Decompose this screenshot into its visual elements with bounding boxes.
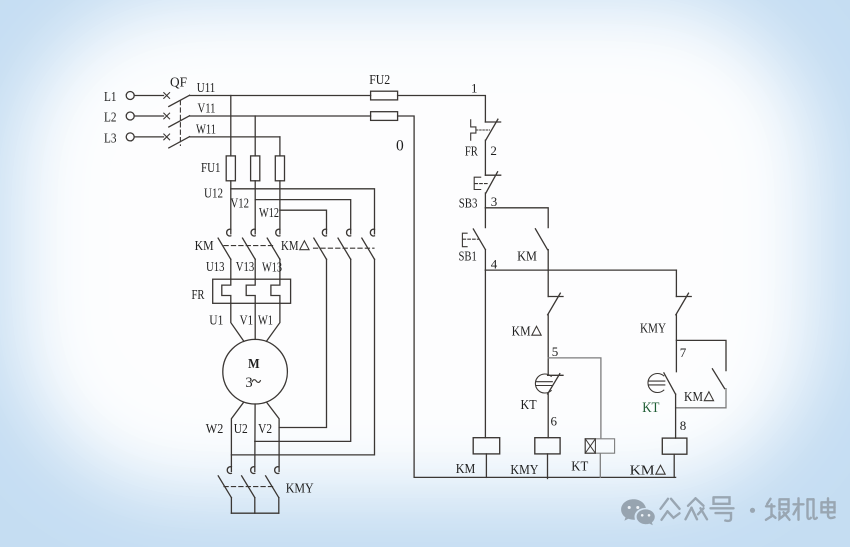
- svg-text:KMY: KMY: [640, 322, 666, 337]
- contactor KM-delta main contact blade: [338, 238, 351, 259]
- svg-text:SB1: SB1: [459, 250, 477, 265]
- svg-text:KT: KT: [521, 398, 537, 413]
- pushbutton SB3 NC contact tick: [485, 174, 500, 176]
- svg-text:8: 8: [680, 418, 687, 433]
- svg-text:V2: V2: [258, 422, 272, 437]
- svg-text:KMY: KMY: [286, 482, 314, 497]
- coil KM-delta: [662, 438, 687, 454]
- wire coil KMY to rail 0: [547, 454, 549, 479]
- wire L2 lead: [134, 115, 163, 117]
- thermal relay FR heater element 2: [246, 279, 255, 303]
- wire U1 (to motor): [231, 303, 244, 341]
- wire coil KM-delta to rail 0: [673, 454, 675, 477]
- watermark text 公众号·银机电: [661, 497, 835, 521]
- wire KMY blade to star bar: [278, 498, 280, 514]
- svg-text:7: 7: [680, 345, 687, 360]
- svg-text:QF: QF: [170, 76, 187, 91]
- svg-text:FR: FR: [192, 288, 206, 303]
- contactor KMY contact hook: [251, 467, 255, 474]
- wire to node 5: [547, 315, 549, 376]
- contactor KM-delta aux NO blade: [712, 369, 724, 389]
- breaker QF blade L1: [169, 95, 190, 106]
- contactor KM-delta linkage (dashed): [314, 247, 375, 249]
- contactor KM-delta main contact blade: [314, 238, 327, 259]
- KM-delta NC label: [512, 325, 542, 340]
- wire W13: [279, 259, 281, 279]
- contactor KMY contact blade: [242, 476, 255, 498]
- coil KM-delta label: [630, 464, 666, 479]
- svg-text:U12: U12: [204, 187, 223, 202]
- wire V1 (to motor): [254, 303, 256, 339]
- breaker QF blade L2: [169, 116, 190, 127]
- wire phase 2 down to fuse FU1b: [254, 116, 256, 156]
- svg-text:M: M: [248, 357, 260, 372]
- thermal relay FR NC contact blade: [486, 119, 498, 140]
- wire node 1 (fuse to control rail): [398, 96, 486, 123]
- svg-text:U13: U13: [206, 260, 225, 275]
- svg-text:KM: KM: [630, 464, 656, 479]
- wire coil KM to rail 0: [485, 454, 487, 478]
- contactor KM main contact blade: [267, 238, 280, 259]
- fuse FU1c: [275, 156, 284, 181]
- wire U12 (to KM-delta col 3): [231, 189, 375, 234]
- svg-text:4: 4: [491, 257, 498, 272]
- contactor KM main contact blade: [218, 238, 231, 259]
- wire node 7 branch to KM-delta aux: [676, 340, 726, 370]
- fuse FU1b: [251, 156, 260, 181]
- svg-text:W11: W11: [196, 123, 216, 138]
- fuse FU1a: [226, 156, 235, 181]
- pushbutton SB1 blade: [473, 229, 485, 250]
- fuse FU2 lower: [371, 112, 398, 121]
- terminal L1: [104, 90, 134, 105]
- svg-text:L2: L2: [104, 111, 117, 126]
- KT NC delayed contact blade: [548, 374, 560, 394]
- thermal relay FR box: [213, 279, 291, 303]
- svg-text:0: 0: [396, 138, 404, 155]
- svg-text:3: 3: [491, 194, 498, 209]
- svg-text:V11: V11: [198, 102, 216, 117]
- terminal L3: [104, 132, 134, 147]
- wire KM aux to node 4: [547, 250, 549, 271]
- wire U2 (motor to KMY and KM-delta col2): [254, 404, 256, 471]
- coil KT (with crossed box): [585, 439, 614, 453]
- svg-text:KM: KM: [512, 325, 531, 340]
- wire W1 (to motor): [266, 303, 280, 341]
- contactor KM-delta main contact hook: [370, 229, 374, 236]
- pushbutton SB1 NO upper terminal: [484, 208, 486, 228]
- contactor KM-delta main contact hook: [322, 229, 326, 236]
- svg-text:W1: W1: [258, 314, 273, 329]
- contactor KM-delta NC interlock tick: [548, 296, 563, 298]
- breaker QF linkage (dashed): [179, 101, 181, 146]
- wire W11: [190, 136, 280, 138]
- svg-text:U1: U1: [209, 314, 223, 329]
- wire node 2: [484, 140, 486, 175]
- wire L1 lead: [134, 95, 163, 97]
- wire node 3 branch to KM aux: [485, 208, 548, 228]
- contactor KMY star bar: [231, 512, 278, 514]
- thermal relay FR actuator (heater jog): [471, 120, 476, 140]
- svg-text:V1: V1: [240, 314, 254, 329]
- terminal L2: [104, 111, 134, 126]
- wire node 3: [484, 193, 486, 208]
- pushbutton SB3 blade: [486, 172, 498, 193]
- wire fuse FU1c to contact: [279, 181, 281, 234]
- svg-text:FU2: FU2: [369, 73, 390, 88]
- contactor KM main contact hook: [276, 229, 280, 236]
- wire V11: [190, 115, 371, 117]
- wire net 0 (neutral: right of fuse, down, bottom rail): [398, 116, 676, 477]
- wire node 8 to coil KM-delta: [675, 394, 677, 438]
- svg-text:L1: L1: [104, 90, 117, 105]
- svg-text:U11: U11: [197, 81, 216, 96]
- contactor KM aux NO blade (self-hold): [535, 229, 547, 250]
- wire U11: [190, 95, 371, 97]
- contactor KM linkage (dashed): [224, 245, 274, 247]
- svg-text:U2: U2: [234, 422, 248, 437]
- KM-delta aux label: [684, 390, 714, 405]
- wire KMY blade to star bar: [254, 498, 256, 514]
- wire phase 1 down to fuse FU1a: [230, 96, 232, 156]
- breaker QF fixed contact L3 (x mark): [164, 134, 170, 140]
- svg-text:1: 1: [471, 81, 478, 96]
- svg-text:L3: L3: [104, 132, 117, 147]
- svg-text:W12: W12: [259, 206, 279, 221]
- SB3 actuator dashed link: [475, 183, 489, 185]
- contactor KMY NC interlock tick: [676, 296, 691, 298]
- wire KM-delta aux to node 8: [676, 389, 726, 408]
- svg-text:W2: W2: [206, 422, 224, 437]
- coil KM: [473, 438, 500, 454]
- contactor KM main contact hook: [227, 229, 231, 236]
- svg-text:KM: KM: [195, 239, 214, 254]
- wire to node 7: [675, 315, 677, 372]
- time relay KT NO delayed contact blade: [664, 373, 676, 394]
- wire V13: [254, 259, 256, 279]
- wire V2 (motor to KMY and KM-delta col1): [267, 402, 280, 471]
- KT delay symbol (semicircle): [535, 374, 552, 393]
- contactor KMY linkage (dashed): [224, 486, 275, 488]
- coil KMY: [535, 438, 560, 454]
- contactor KMY contact hook: [227, 467, 231, 474]
- wire phase 3 down to fuse FU1c: [279, 137, 281, 156]
- svg-text:V12: V12: [231, 197, 250, 212]
- FR actuator dotted link: [477, 129, 490, 131]
- wire node 5 branch to coil KT: [548, 358, 601, 438]
- breaker QF fixed contact L2 (x mark): [164, 113, 170, 119]
- contactor KM-delta NC interlock blade: [548, 293, 561, 315]
- contactor KMY contact blade: [218, 476, 231, 498]
- wire KMY blade to star bar: [230, 498, 232, 514]
- wire coil KT to rail 0: [599, 454, 601, 478]
- wire SB1 to node 4: [484, 250, 486, 271]
- svg-text:3: 3: [245, 375, 252, 391]
- contactor KMY NC interlock blade: [676, 293, 689, 315]
- svg-text:KM: KM: [517, 250, 537, 265]
- svg-text:KM: KM: [281, 239, 299, 254]
- KT delay symbol (semicircle): [648, 373, 665, 392]
- svg-text:V13: V13: [236, 260, 255, 275]
- wire fuse FU1b to contact: [254, 181, 256, 234]
- svg-text:W13: W13: [262, 261, 282, 276]
- wire V12 (to KM-delta col 2): [255, 200, 351, 234]
- svg-text:5: 5: [552, 344, 559, 359]
- wire U13: [230, 259, 232, 279]
- contactor KM main contact blade: [243, 238, 256, 259]
- wire W12 (to KM-delta col 1): [280, 210, 327, 234]
- contactor KM-delta main contact hook: [347, 229, 351, 236]
- svg-text:KM: KM: [456, 462, 476, 477]
- svg-text:FU1: FU1: [201, 161, 221, 176]
- svg-text:KT: KT: [642, 400, 659, 416]
- wire fuse FU1a to contact: [230, 181, 232, 234]
- wire L3 lead: [134, 136, 163, 138]
- thermal relay FR heater element 3: [271, 279, 280, 303]
- svg-text:SB3: SB3: [459, 197, 478, 212]
- time relay KT NC delayed contact tick: [548, 374, 563, 376]
- svg-text:6: 6: [551, 414, 558, 429]
- svg-text:KM: KM: [684, 390, 703, 405]
- contactor KMY contact hook: [275, 467, 279, 474]
- wire node 4 rail: [485, 269, 676, 271]
- fuse FU2 upper: [371, 91, 398, 100]
- thermal relay FR NC contact tick: [485, 121, 500, 123]
- breaker QF fixed contact L1 (x mark): [164, 93, 170, 99]
- watermark wechat icon: [621, 499, 655, 525]
- wire W2 (motor to KMY and KM-delta col3): [231, 402, 243, 471]
- wire node 4 down to KMY NC: [675, 270, 677, 296]
- SB1 actuator dashed link: [463, 238, 479, 240]
- contactor KM main contact hook: [251, 229, 255, 236]
- svg-text:2: 2: [490, 143, 497, 158]
- pushbutton SB3 actuator: [474, 177, 481, 189]
- svg-text:KT: KT: [571, 460, 588, 475]
- wire node 4 to coil KM: [484, 270, 486, 438]
- contactor KMY contact blade: [266, 476, 279, 498]
- wire node 6 to coil KMY: [547, 394, 549, 438]
- svg-text:FR: FR: [465, 145, 479, 160]
- breaker QF blade L3: [169, 137, 190, 148]
- wire node 4 down to KM-delta NC: [547, 270, 549, 296]
- contactor KM-delta label: [281, 239, 309, 254]
- contactor KM-delta main contact blade: [362, 238, 375, 259]
- pushbutton SB1 actuator: [462, 233, 467, 247]
- motor M 3~: [223, 339, 288, 404]
- svg-text:KMY: KMY: [510, 463, 538, 478]
- thermal relay FR heater element 1: [222, 279, 231, 303]
